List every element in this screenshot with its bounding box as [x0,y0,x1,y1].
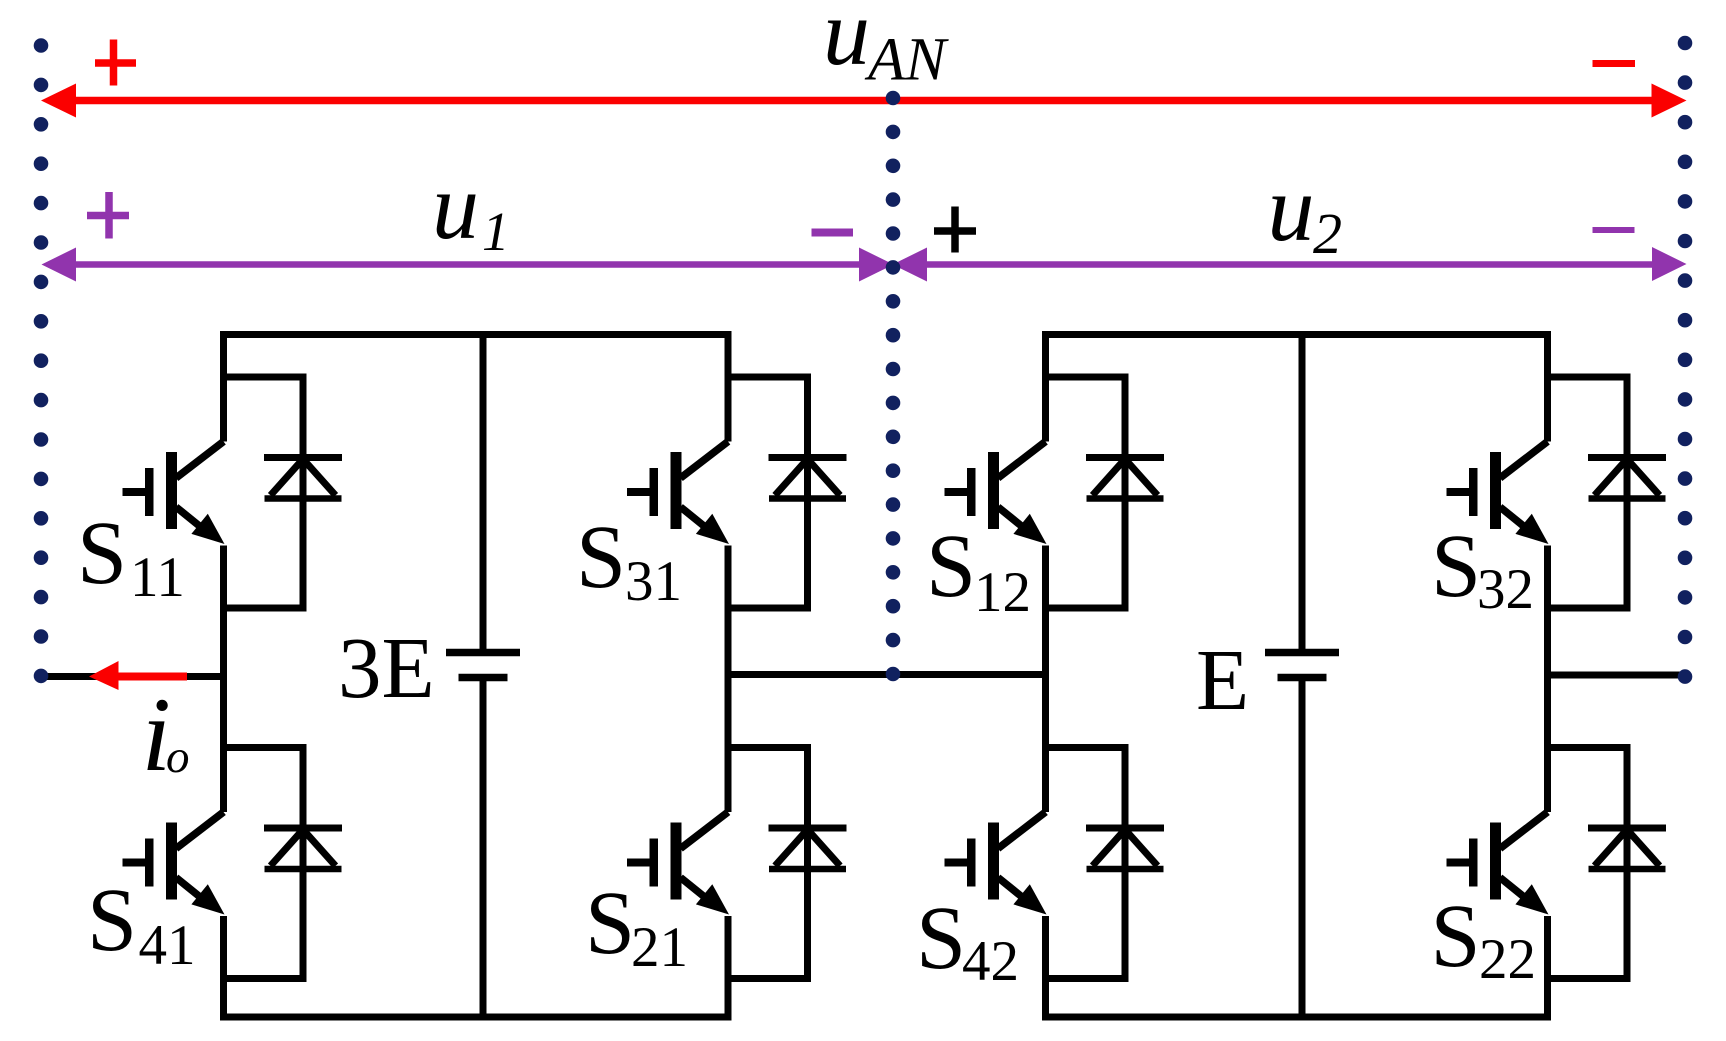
svg-text:u: u [432,155,479,259]
svg-text:2: 2 [1313,201,1342,266]
svg-text:S: S [916,889,966,988]
svg-text:o: o [166,731,190,783]
svg-text:32: 32 [1477,558,1534,621]
svg-text:u: u [1268,157,1315,261]
svg-text:31: 31 [625,550,682,613]
svg-text:S: S [585,874,635,973]
svg-text:S: S [576,508,626,607]
svg-text:S: S [77,504,127,603]
svg-text:41: 41 [139,914,196,977]
svg-text:42: 42 [962,930,1019,993]
svg-text:21: 21 [631,916,688,979]
svg-text:AN: AN [864,27,949,94]
svg-text:1: 1 [482,201,510,262]
svg-text:3E: 3E [338,619,435,716]
svg-text:22: 22 [1479,928,1536,991]
svg-text:S: S [1431,887,1481,986]
svg-text:11: 11 [130,546,185,609]
svg-text:S: S [1431,517,1481,616]
svg-text:S: S [87,871,137,970]
svg-text:12: 12 [974,561,1031,624]
svg-text:S: S [926,517,976,616]
svg-text:E: E [1196,631,1249,728]
svg-text:u: u [823,0,870,85]
